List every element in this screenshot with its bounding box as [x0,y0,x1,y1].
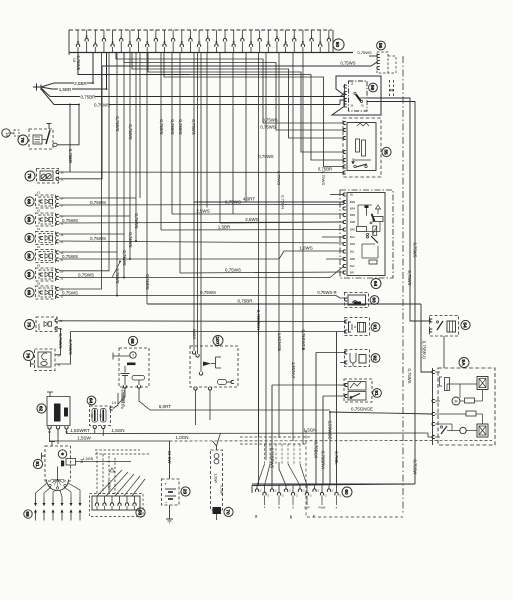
svg-text:BR3: BR3 [350,200,356,204]
svg-text:0,75WS: 0,75WS [134,213,139,228]
0,75WS labels on distribution verticals [115,213,150,289]
dashed bundle to connector 60 [240,437,310,486]
component label 68 [128,336,137,345]
switch 54 [429,316,458,337]
splice H with battery feed fan [33,53,107,105]
lamp 75A [25,317,63,332]
wire 0,75BRGN to 91 [256,304,261,437]
battery wires [166,441,173,523]
indicator lamp K4 [25,245,64,262]
svg-text:0,75WS: 0,75WS [413,243,418,258]
wire 0,75WS drop A [56,329,64,355]
svg-text:0,75BLVI: 0,75BLVI [314,442,319,459]
wire 1,0GN dashed [170,435,493,441]
label d boundary [388,80,394,97]
component label 62 [37,404,46,413]
svg-text:66: 66 [25,290,31,296]
wire 6,0RT [150,404,330,410]
svg-text:0,75WS: 0,75WS [90,200,106,205]
component label 91 [371,323,380,332]
wire 2,5WS [172,209,344,215]
svg-text:23: 23 [181,489,187,495]
component label 23 [181,487,190,496]
indicator lamp K6 [25,282,64,299]
svg-text:0,75WS: 0,75WS [90,236,106,241]
svg-text:1,5GNGE: 1,5GNGE [277,333,282,351]
heater unit 9A [432,368,495,445]
fuse wires [95,389,124,436]
svg-text:0,75WS: 0,75WS [225,199,241,204]
svg-text:58: 58 [136,510,142,516]
svg-text:6,0BR: 6,0BR [192,329,196,340]
svg-text:62: 62 [37,406,43,412]
svg-text:K4: K4 [37,245,41,249]
svg-text:1,5BR: 1,5BR [59,87,72,92]
ignition cable 70 [211,433,224,520]
wire 0,75WS drop from strip pin [76,53,190,75]
svg-text:0,75SW: 0,75SW [413,460,418,475]
wires 0,75WS to connector 55 [102,56,377,68]
connector strip X1 (top) [69,30,372,55]
svg-text:DWS: DWS [37,324,41,331]
component label 63 [370,296,379,305]
svg-text:0,5SW: 0,5SW [220,485,224,495]
svg-text:0,75WS: 0,75WS [170,119,175,134]
svg-text:−: − [165,500,168,505]
wire 0,75BR drop to horn [68,105,73,173]
wire from switch 76 to 0,75WS line [57,105,79,145]
svg-text:0,75SWGE: 0,75SWGE [301,330,306,351]
svg-text:1,0WS: 1,0WS [299,246,313,251]
svg-text:0,75WS: 0,75WS [58,333,63,348]
svg-text:0,75BR: 0,75BR [80,94,96,99]
component label 64 [87,396,96,405]
svg-text:68: 68 [129,338,135,344]
svg-text:70: 70 [224,509,230,515]
spark plug wires with arrows [34,483,82,521]
wire 1,5BR [161,224,344,230]
svg-text:BR: BR [350,271,354,275]
svg-text:0,75WS: 0,75WS [200,290,216,295]
lamp ground wires 0,75WS to switch pins [59,200,345,298]
wires into switch 56 [340,93,346,97]
wire 0,75BR-D [421,304,433,372]
switch 76A [24,349,61,371]
svg-text:1,5GN: 1,5GN [303,427,316,432]
plug symbol 50 at strip right end [333,39,344,50]
svg-text:0,75WS: 0,75WS [145,274,150,289]
svg-text:107: 107 [214,336,220,344]
svg-text:BL: BL [350,193,354,197]
svg-text:BL1: BL1 [350,250,355,254]
wires from strip to relay pins (staircase) [78,53,345,186]
switch 56 [332,76,381,115]
component label 92 [371,354,380,363]
svg-text:60: 60 [343,489,349,495]
svg-text:0,75WS: 0,75WS [76,56,81,71]
svg-text:92: 92 [371,355,377,361]
dashed stub right of 55 [388,56,396,73]
cigarette lighter 63 [344,293,368,308]
svg-text:1,0GN: 1,0GN [175,435,188,440]
svg-text:0,75WS: 0,75WS [407,369,412,384]
svg-text:91: 91 [373,390,379,396]
wire y331 to 91 lower pin [56,332,347,365]
wire 0,75WS-R [317,290,336,295]
wire 6,0RT upper [193,199,195,202]
component label 64 [371,279,381,289]
svg-text:75: 75 [26,173,32,179]
svg-text:6,0RT: 6,0RT [159,404,171,409]
component label 55 [377,41,386,50]
lamp feed wires to strip [59,53,137,297]
svg-text:76: 76 [19,137,25,143]
indicator lamp K5 [25,264,64,281]
svg-text:66: 66 [25,199,31,205]
ignition harness connector 58 [90,494,144,517]
component label 61 [33,459,42,468]
svg-text:76: 76 [24,353,30,359]
svg-text:K3: K3 [37,227,41,231]
diagonal wire into 60 [279,462,286,486]
svg-text:9A: 9A [460,359,466,366]
svg-text:66: 66 [25,217,31,223]
svg-text:0,75WS: 0,75WS [78,272,94,277]
horn wires [59,171,345,174]
svg-text:55: 55 [377,43,383,49]
stub wires into 64 [322,195,345,260]
svg-text:0,75WS: 0,75WS [225,268,241,273]
svg-text:BR2: BR2 [350,242,356,246]
svg-text:0,75BR: 0,75BR [237,299,253,304]
wire from 75A to clock 91 [58,320,346,323]
svg-text:0,75WS: 0,75WS [341,61,356,66]
wire 1,0WS [299,246,313,251]
svg-text:K1: K1 [37,191,41,195]
svg-text:66: 66 [24,511,30,517]
wire 1,5GN main [94,427,429,433]
svg-text:64: 64 [372,281,378,287]
component label 70 [224,507,233,516]
wire 1,5GN right portion to 9A [428,433,434,437]
svg-text:K5: K5 [37,264,41,268]
component label 91 [373,389,382,398]
svg-text:m: m [276,37,278,39]
svg-text:61: 61 [34,461,40,467]
main harness connector 60 [252,484,415,520]
component label 75 [25,171,35,181]
component label 66 [24,510,32,518]
wire 2,5WS b [220,217,344,223]
component label 60 [342,487,352,497]
svg-text:FlstW: FlstW [319,506,326,510]
svg-text:1,5SW: 1,5SW [77,436,91,441]
svg-text:0,75WS: 0,75WS [122,250,127,265]
svg-text:4,0RT: 4,0RT [243,197,255,202]
svg-text:0,75WS-R: 0,75WS-R [317,290,336,295]
svg-text:0,75WS: 0,75WS [62,254,78,259]
svg-text:64: 64 [87,398,93,404]
svg-text:0,75WS: 0,75WS [407,271,412,286]
svg-text:T: T [132,354,134,358]
flasher wires [118,387,150,410]
wire 0,75WS mid [225,199,241,204]
svg-text:2,5BR: 2,5BR [74,81,87,86]
component label 76 [18,135,28,145]
svg-text:54: 54 [461,322,467,328]
sensor 92 [344,350,369,367]
svg-text:0,75BL: 0,75BL [334,451,339,465]
connector 55 [377,52,388,73]
boundary line c (dash-dot) [402,56,404,515]
svg-text:8A: 8A [90,414,94,418]
component label 56 [369,83,378,92]
svg-text:15: 15 [72,58,76,62]
svg-text:ESP: ESP [304,506,309,510]
horn 75 [37,169,64,184]
wires from switch 56 down right side [368,98,431,321]
svg-text:91: 91 [371,324,377,330]
wire 0,75WS d [200,290,216,295]
svg-text:BL2: BL2 [350,264,355,268]
svg-text:0,75WS: 0,75WS [262,117,277,122]
wire to 93 pins [270,385,347,486]
svg-text:K2: K2 [37,209,41,213]
jog wire to junction [112,261,121,278]
connector 14 (left edge) [2,129,19,138]
svg-text:0,75BRGN: 0,75BRGN [256,310,261,330]
svg-text:K6: K6 [37,282,41,286]
switch unit 93 [344,379,372,402]
component label 54 [461,320,470,329]
terminal pins of strip X1 [76,30,330,53]
svg-text:BL3: BL3 [350,235,355,239]
long wire drops to bottom connector [259,53,304,486]
svg-text:16 SW: 16 SW [167,451,172,464]
stub wire 92 lower pin [340,362,346,364]
wire 1,5SW [50,436,170,442]
coil wires [50,428,94,444]
svg-text:N: N [278,506,280,510]
svg-text:0,75WS: 0,75WS [62,290,78,295]
svg-text:0,75WS: 0,75WS [358,50,373,55]
svg-text:0,75BR-D: 0,75BR-D [422,341,427,359]
battery 23 [162,479,180,505]
svg-text:d: d [388,89,394,92]
control unit wires down [195,390,197,425]
clock 91 [344,318,369,336]
svg-text:+: + [164,482,167,487]
svg-text:35: 35 [382,149,388,155]
svg-text:BR1: BR1 [350,228,356,232]
wire 4,0RT [194,197,345,203]
svg-text:BR5: BR5 [350,213,356,217]
svg-text:2,5WS: 2,5WS [245,217,259,222]
svg-text:0,75BRVI: 0,75BRVI [321,451,326,469]
svg-text:1,5: 1,5 [112,401,117,405]
svg-text:2,5WS: 2,5WS [196,209,210,214]
switch 76 [29,124,57,150]
svg-text:0,75WS: 0,75WS [159,119,164,134]
wire 0,75BR [80,94,344,99]
svg-text:0,75WS: 0,75WS [260,124,275,129]
flasher unit 68 [113,348,149,388]
svg-text:66: 66 [25,253,31,259]
svg-text:56: 56 [369,85,375,91]
svg-text:BR4: BR4 [350,207,356,211]
indicator lamp K1 [25,191,64,208]
svg-text:1,5SWRT-6: 1,5SWRT-6 [122,387,126,407]
svg-text:14: 14 [5,132,10,137]
wire to 92 upper pin [314,353,347,486]
svg-text:0,75WS: 0,75WS [191,119,196,134]
component label 58 [136,508,145,517]
svg-text:0,75WS: 0,75WS [115,116,120,131]
svg-text:66: 66 [25,235,31,241]
svg-text:0,75WS: 0,75WS [128,124,133,139]
wire to 91 lower pin / 0,75BL [334,332,339,486]
steering column switch 64 [340,190,393,278]
wire 0,75GNGE [328,406,433,485]
svg-text:1,0SW: 1,0SW [214,473,218,483]
wire drops from strip to interior nodes [140,53,246,373]
svg-text:75: 75 [25,322,31,328]
svg-text:S: S [292,506,294,510]
component label 107 [213,336,223,346]
svg-text:66: 66 [25,272,31,278]
dashed boundary bottom [306,430,403,517]
svg-text:50: 50 [334,42,340,48]
relay 35 [343,118,381,177]
svg-text:0,75WS: 0,75WS [128,232,133,247]
svg-text:0,75WS: 0,75WS [68,339,73,354]
component label 9A [459,358,469,368]
indicator lamp K3 [25,227,64,244]
svg-text:M: M [455,400,458,404]
svg-text:1,5SWRT: 1,5SWRT [70,428,90,433]
svg-text:0,75WS: 0,75WS [321,171,326,186]
indicator lamp K2 [25,209,64,226]
wire 0,75WS [94,102,340,107]
svg-text:1,5GNVI: 1,5GNVI [291,362,296,378]
svg-text:1,0GN: 1,0GN [83,457,94,461]
svg-text:1,5GN: 1,5GN [111,428,124,433]
control unit 107 [190,329,238,390]
svg-text:1,5BR: 1,5BR [107,480,111,491]
svg-text:0,75BR: 0,75BR [68,149,73,163]
svg-text:0,75WS: 0,75WS [62,218,78,223]
svg-text:2,5SWGE: 2,5SWGE [328,421,333,440]
component label 35 [382,147,391,156]
svg-text:1,5BR: 1,5BR [218,224,231,229]
wire 0,75WS c [180,268,344,274]
svg-text:0,75WS: 0,75WS [178,119,183,134]
switch 54 to box wire [443,336,445,368]
svg-text:BR6: BR6 [350,257,356,261]
svg-text:8A: 8A [99,414,103,418]
ignition coil 62 [47,392,70,435]
wire from 9A down 0,75SW return [252,483,415,485]
svg-text:BR8: BR8 [350,220,356,224]
wire 0,75BR long [147,299,421,304]
wires into connector 58 [97,470,145,496]
svg-text:63: 63 [370,297,376,303]
svg-text:0,75GNGE: 0,75GNGE [351,406,373,411]
dashed harness bundle to 58 [95,450,150,494]
fuse box 64b [90,406,113,429]
distributor 61 [42,442,132,491]
svg-text:0,75BR: 0,75BR [318,167,332,172]
